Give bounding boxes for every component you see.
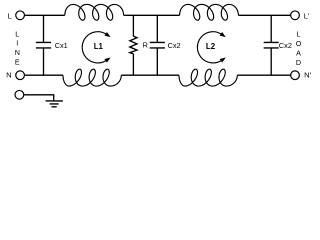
svg-text:Cx1: Cx1 bbox=[55, 41, 68, 50]
svg-text:L: L bbox=[8, 11, 12, 20]
svg-text:A: A bbox=[296, 48, 301, 57]
wire earth (PE to ground) bbox=[24, 95, 54, 101]
svg-text:D: D bbox=[296, 58, 301, 67]
capacitor Cx1 plates bbox=[36, 42, 51, 48]
resistor R bottom lead bbox=[132, 54, 134, 75]
inductor L1 top winding bbox=[65, 4, 124, 20]
inductor L2 coupling arrow bbox=[197, 32, 221, 63]
wire bottom-mid (L1 to L2) bbox=[121, 74, 179, 76]
capacitor Cx2 bottom lead bbox=[156, 48, 158, 75]
svg-text:R: R bbox=[143, 40, 148, 49]
svg-text:L1: L1 bbox=[94, 42, 104, 51]
terminal N' (output neutral) bbox=[291, 71, 300, 80]
capacitor Cx1 bottom lead bbox=[43, 48, 45, 75]
capacitor Cx2 output plates bbox=[264, 42, 279, 48]
resistor R zigzag bbox=[130, 36, 137, 54]
svg-text:L: L bbox=[15, 29, 19, 38]
svg-text:I: I bbox=[16, 39, 18, 48]
svg-text:Cx2: Cx2 bbox=[168, 41, 181, 50]
svg-text:N: N bbox=[15, 48, 20, 57]
svg-text:L': L' bbox=[304, 11, 310, 20]
terminal L (input line) bbox=[16, 11, 25, 20]
svg-text:N': N' bbox=[304, 71, 311, 80]
inductor L2 bottom winding bbox=[179, 69, 237, 86]
svg-text:O: O bbox=[296, 39, 302, 48]
wire top-right (L2 to L') bbox=[238, 14, 290, 16]
resistor R top lead bbox=[132, 15, 134, 36]
inductor L2 top winding bbox=[180, 4, 239, 20]
ground symbol bbox=[46, 101, 63, 107]
wire top-mid (L1 to L2) bbox=[124, 14, 180, 16]
capacitor Cx2 top lead bbox=[156, 15, 158, 42]
capacitor Cx2 output bottom lead bbox=[270, 48, 272, 75]
svg-text:Cx2: Cx2 bbox=[279, 41, 292, 50]
inductor L1 bottom winding bbox=[63, 69, 121, 86]
terminal L' (output line) bbox=[291, 11, 300, 20]
wire bottom-right (L2 to N') bbox=[237, 74, 290, 76]
svg-text:L: L bbox=[297, 30, 301, 39]
wire bottom-left (N to L1) bbox=[24, 74, 63, 76]
capacitor Cx2 plates bbox=[150, 42, 165, 48]
svg-text:E: E bbox=[15, 57, 20, 66]
capacitor Cx2 output top lead bbox=[270, 15, 272, 42]
capacitor Cx1 top lead bbox=[43, 15, 45, 42]
terminal PE (earth) bbox=[15, 90, 24, 99]
svg-text:N: N bbox=[6, 71, 11, 80]
svg-text:L2: L2 bbox=[206, 42, 216, 51]
inductor L1 coupling arrow bbox=[82, 32, 106, 63]
terminal N (input neutral) bbox=[16, 71, 25, 80]
wire top-left (L to L1) bbox=[24, 14, 64, 16]
